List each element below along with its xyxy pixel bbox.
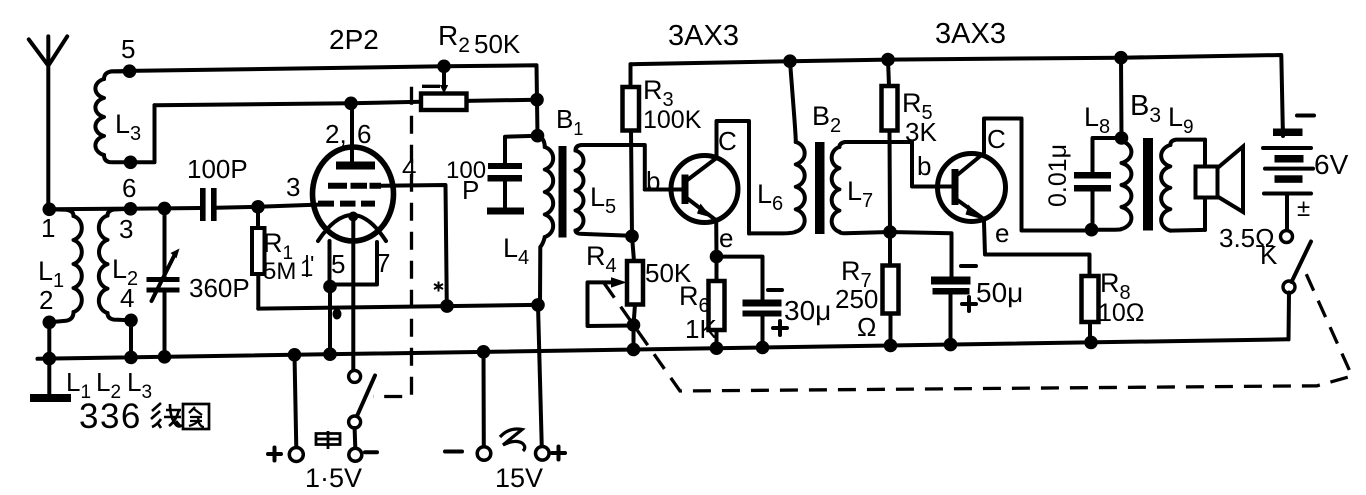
coil L6	[783, 54, 797, 68]
svg-text:b: b	[917, 151, 931, 181]
svg-text:3K: 3K	[905, 117, 937, 147]
coil L4 humps	[545, 147, 553, 237]
tube 2P2 envelope	[313, 147, 394, 241]
wire L1 bottom to rail	[47, 322, 51, 358]
svg-text:1·5V: 1·5V	[305, 463, 362, 493]
hanzi xian	[151, 403, 182, 428]
wire rail A (top tube rail)	[111, 65, 538, 135]
capacitor 0.01u	[1093, 138, 1122, 230]
node antenna/L1 junction	[43, 203, 57, 217]
svg-text:3AX3: 3AX3	[668, 20, 739, 52]
svg-text:3: 3	[119, 214, 133, 244]
tube grids (dashed)	[318, 186, 381, 204]
svg-text:1K: 1K	[685, 314, 717, 344]
svg-text:6: 6	[357, 119, 371, 149]
coil L8	[1114, 51, 1128, 65]
svg-text:250: 250	[835, 284, 878, 314]
resistor R4 50K (pot)	[632, 236, 635, 349]
ink blob artifact	[333, 309, 342, 320]
symbol yi	[500, 429, 525, 451]
svg-text:5: 5	[331, 249, 345, 279]
wire supply rail (transistor)	[631, 55, 1283, 129]
dashed link R2	[373, 86, 440, 396]
capacitor 100P (feedback)	[505, 136, 538, 164]
dashed link R4-K	[604, 268, 1352, 391]
coil L8 humps	[1122, 141, 1132, 229]
svg-text:3AX3: 3AX3	[935, 18, 1006, 50]
wire L2 bottom to rail	[129, 320, 133, 357]
svg-text:6: 6	[122, 173, 136, 203]
tube center pin wire to switch	[351, 217, 355, 371]
svg-text:4: 4	[120, 283, 134, 313]
svg-text:50μ: 50μ	[976, 277, 1023, 308]
svg-text:50K: 50K	[474, 29, 521, 59]
svg-text:|': |'	[304, 251, 314, 277]
svg-text:100P: 100P	[187, 154, 248, 184]
wire base Q2	[912, 142, 952, 187]
coil L9 humps	[1161, 145, 1170, 231]
potentiometer R2 50K	[421, 94, 467, 111]
capacitor C 100P (grid)	[200, 188, 206, 221]
svg-text:0.01μ: 0.01μ	[1044, 144, 1072, 207]
svg-text:C: C	[987, 124, 1006, 154]
Q2 emitter	[956, 199, 1090, 276]
svg-text:K: K	[1260, 240, 1278, 270]
ground	[47, 359, 51, 395]
resistor R1 5M	[251, 200, 265, 214]
coil L1	[49, 209, 73, 216]
wire ground rail	[38, 339, 1289, 359]
transistor Q2	[938, 154, 1006, 222]
coil L3 humps	[95, 79, 104, 155]
svg-text:2P2: 2P2	[329, 24, 379, 55]
svg-text:C: C	[718, 126, 737, 156]
tube plate	[336, 162, 375, 170]
symbol jia (boxed)	[316, 431, 340, 449]
switch K	[1281, 231, 1293, 243]
svg-text:6V: 6V	[1314, 149, 1349, 180]
svg-text:±: ±	[1297, 195, 1310, 222]
transistor Q1	[671, 156, 738, 223]
wire screen grid pin 4	[381, 185, 447, 306]
svg-text:P: P	[462, 175, 479, 205]
coil L3	[104, 71, 130, 79]
svg-text:1: 1	[41, 213, 55, 243]
coil L5 humps	[576, 151, 584, 231]
Q2 collector	[956, 119, 1090, 231]
coil L7	[839, 142, 912, 147]
loudspeaker	[1203, 140, 1207, 230]
tube pin leads + bracket	[330, 241, 378, 354]
svg-text:100K: 100K	[643, 106, 702, 134]
Q1 emitter	[686, 198, 717, 257]
coil L5	[576, 145, 645, 190]
resistor R8 10ohm	[1082, 276, 1099, 322]
svg-text:e: e	[995, 218, 1009, 248]
resistor R5 3K	[881, 53, 895, 67]
wire rail C (y306 screen rail)	[258, 305, 538, 309]
coil L1 humps	[74, 216, 82, 312]
antenna	[29, 36, 67, 209]
tube cathode/filament arc	[318, 215, 386, 241]
transformer B1 core	[559, 146, 567, 238]
coil L7 humps	[832, 147, 840, 232]
svg-text:Ω: Ω	[857, 312, 876, 342]
battery 15V terminals	[477, 345, 491, 359]
capacitor 50u	[890, 232, 952, 345]
switch (filament)	[349, 370, 361, 382]
svg-text:2,: 2,	[325, 119, 347, 149]
wire rail B (2nd rail)	[155, 100, 538, 106]
wire plate lead	[350, 103, 354, 161]
hanzi quan	[183, 404, 209, 429]
transformer B3 core	[1143, 138, 1153, 231]
svg-text:5M: 5M	[263, 258, 296, 285]
svg-text:2: 2	[39, 285, 53, 315]
svg-text:336: 336	[79, 397, 142, 436]
capacitor 30u	[717, 257, 763, 348]
svg-text:b: b	[646, 166, 660, 196]
svg-text:10Ω: 10Ω	[1098, 299, 1145, 327]
svg-text:5: 5	[121, 34, 135, 64]
resistor R6 1K	[715, 257, 719, 349]
wire base Q1	[645, 188, 682, 192]
svg-text:3: 3	[286, 172, 300, 202]
ink mark	[434, 282, 443, 292]
coil L4	[538, 136, 545, 147]
resistor R7 250	[888, 232, 893, 346]
coil L2	[108, 209, 131, 216]
svg-text:30μ: 30μ	[784, 295, 831, 326]
battery 6V	[1281, 129, 1285, 137]
coil L6 humps	[796, 142, 805, 232]
Q1 collector	[686, 121, 749, 234]
battery 1.5V terminals	[288, 348, 302, 362]
svg-text:e: e	[719, 223, 733, 253]
capacitor 360P (variable)	[163, 208, 167, 356]
wire L3 bottom to rail B	[131, 105, 155, 162]
resistor R3 100K	[631, 64, 633, 236]
svg-text:360P: 360P	[189, 273, 250, 303]
coil L9	[1170, 140, 1205, 145]
coil L2 humps	[99, 216, 108, 314]
wire grid rail (antenna row)	[49, 205, 318, 210]
transformer B2 core	[815, 142, 825, 234]
svg-text:4: 4	[402, 153, 416, 183]
svg-text:7: 7	[376, 248, 390, 278]
svg-text:15V: 15V	[495, 463, 543, 493]
